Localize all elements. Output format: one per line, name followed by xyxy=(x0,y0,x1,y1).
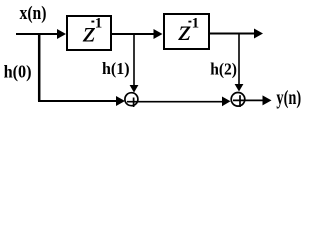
svg-text:z: z xyxy=(177,14,191,47)
svg-text:z: z xyxy=(82,15,96,48)
svg-text:y(n): y(n) xyxy=(276,87,301,109)
svg-text:h(2): h(2) xyxy=(210,59,237,78)
svg-text:1: 1 xyxy=(192,16,200,32)
svg-text:x(n): x(n) xyxy=(20,4,47,24)
svg-text:h(1): h(1) xyxy=(102,59,130,78)
svg-text:1: 1 xyxy=(95,16,103,32)
svg-text:h(0): h(0) xyxy=(4,62,32,82)
